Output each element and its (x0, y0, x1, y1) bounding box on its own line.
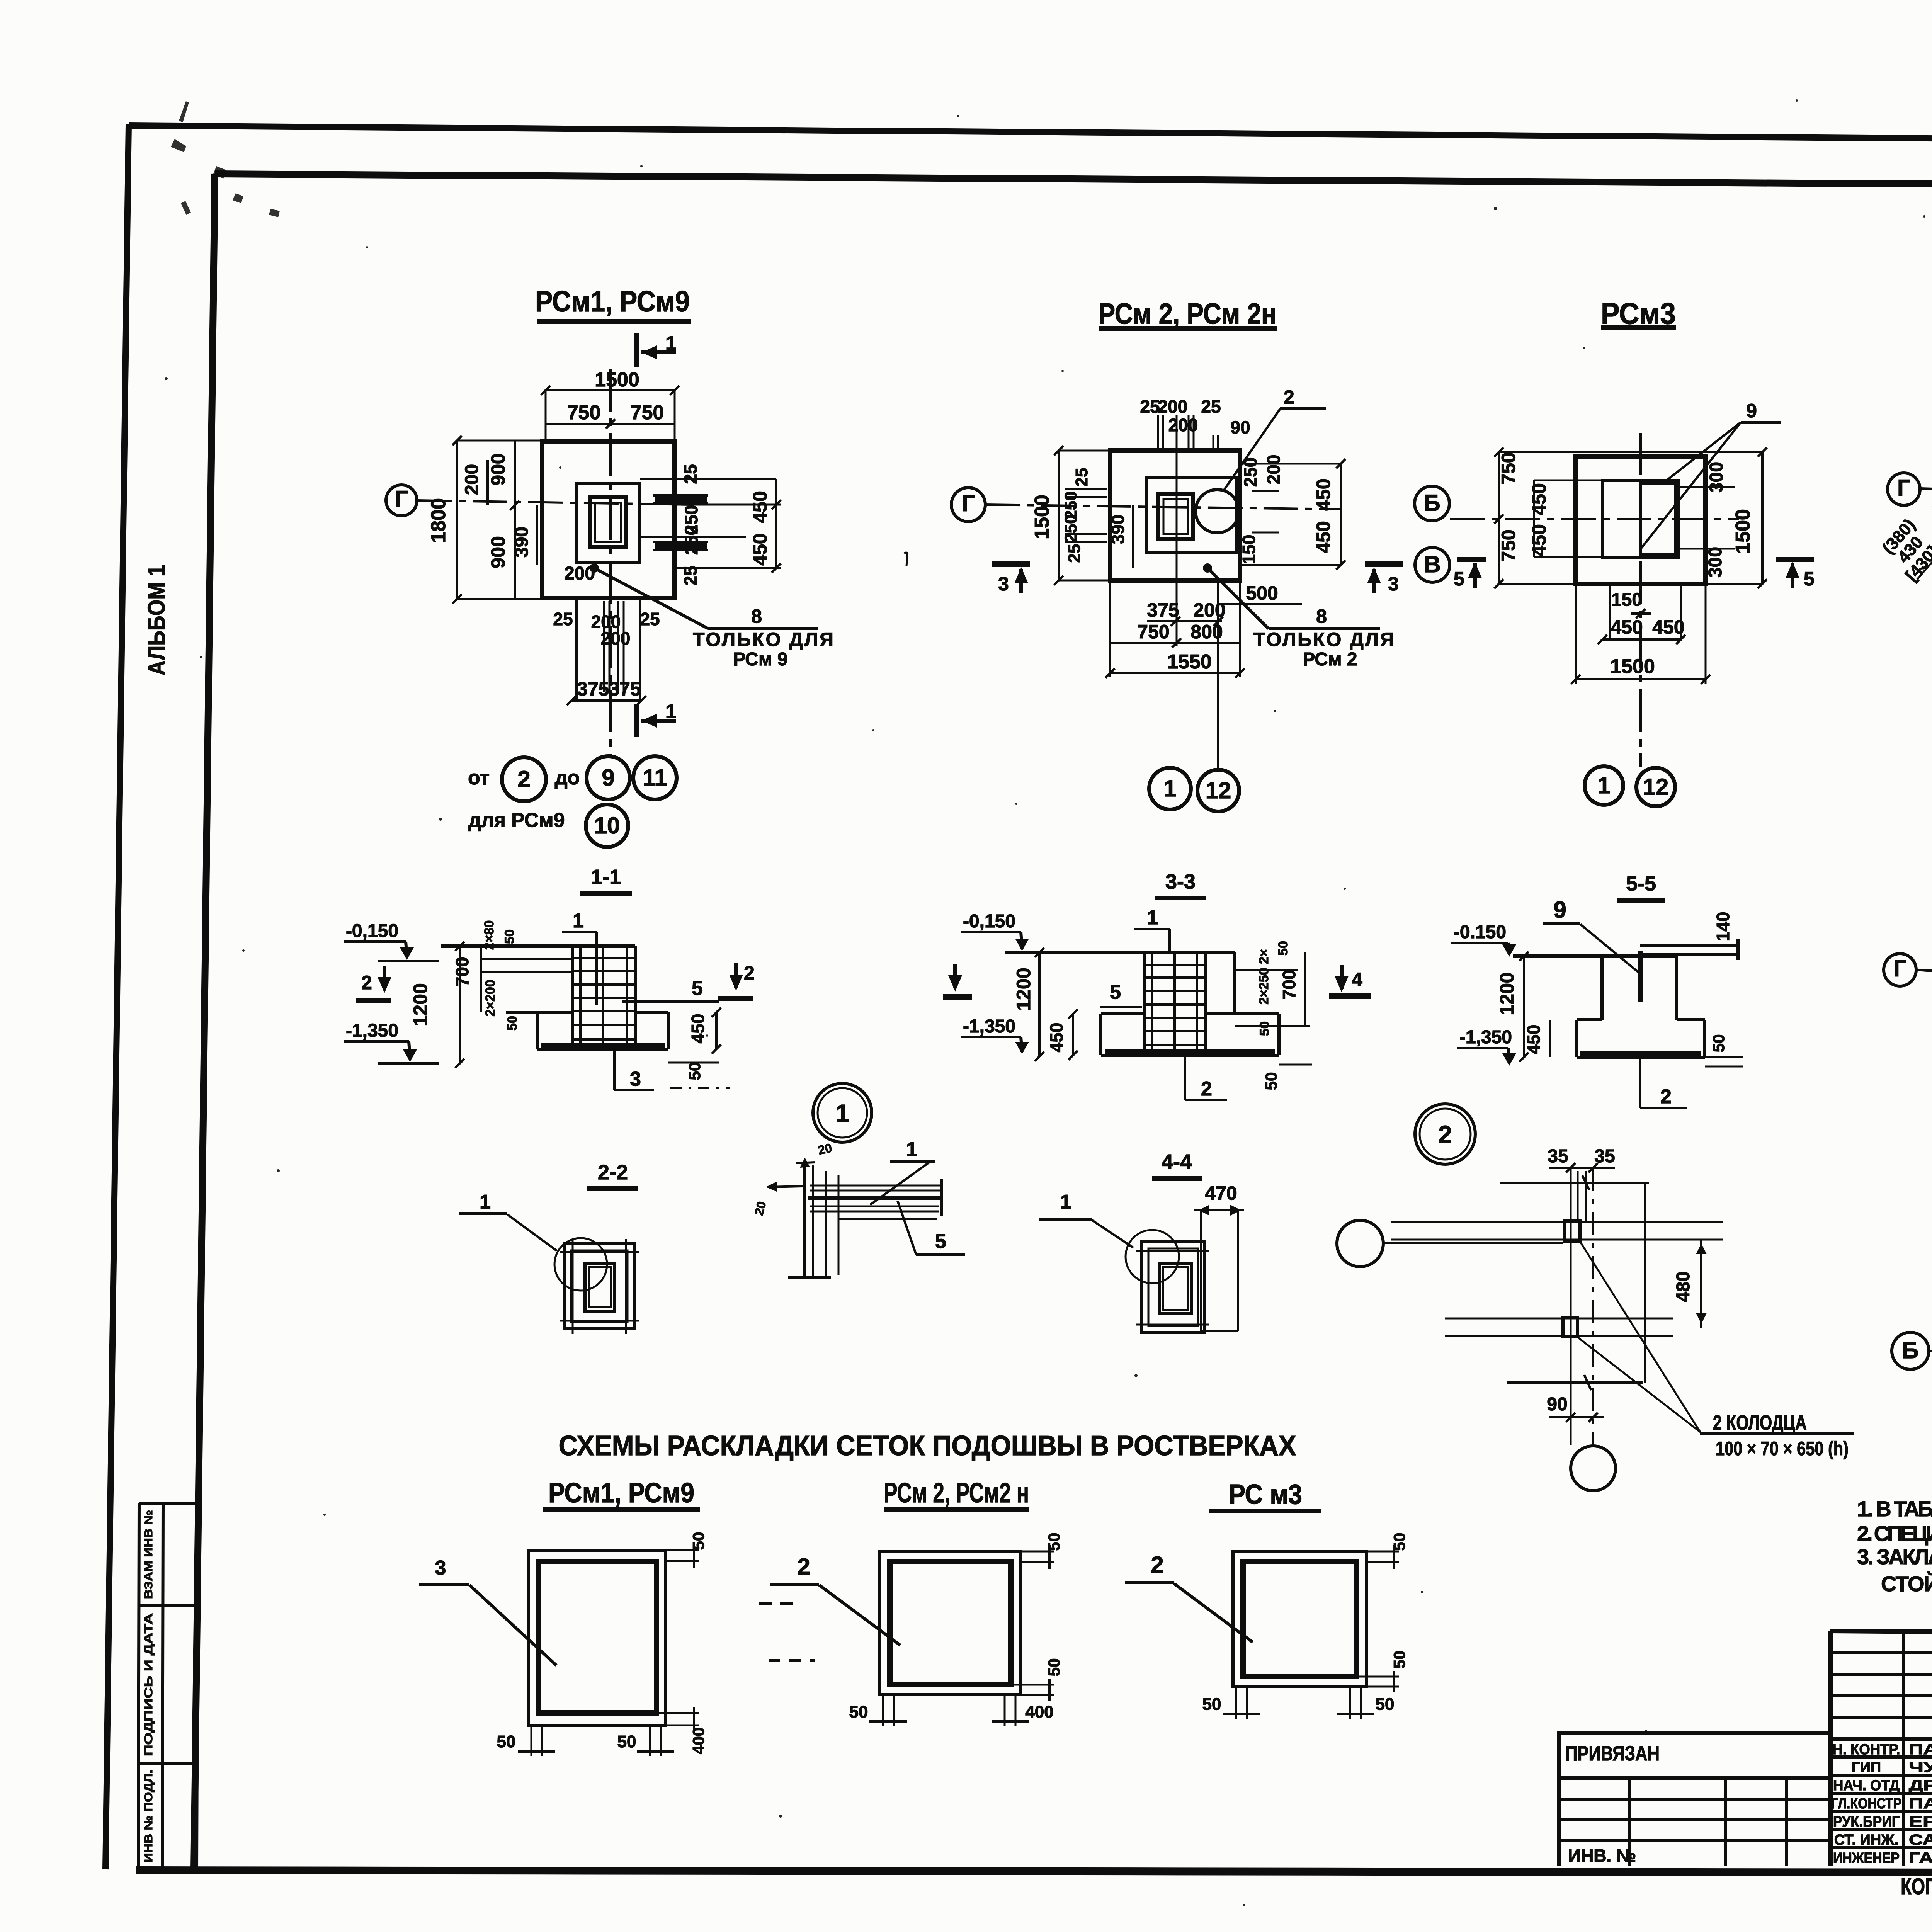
plan 3 title (1601, 296, 1676, 330)
svg-text:1: 1 (1060, 1191, 1071, 1213)
section 1-1 step and footing (537, 1012, 668, 1049)
svg-text:3: 3 (998, 573, 1009, 595)
svg-text:750: 750 (1498, 529, 1519, 561)
mesh scheme 2 square (849, 1533, 1063, 1726)
section 3-3 dim 1200 (1013, 948, 1044, 1061)
svg-text:РСм 9: РСм 9 (733, 649, 787, 670)
svg-text:25: 25 (640, 609, 660, 629)
plan 3 section mark 5 right (1776, 560, 1815, 590)
plan 2 embedded plate bars left (1065, 489, 1107, 542)
svg-text:2: 2 (744, 962, 755, 984)
svg-text:АЛЬБОМ 1: АЛЬБОМ 1 (143, 565, 170, 675)
svg-text:1500: 1500 (1732, 509, 1754, 554)
svg-text:ПРИВЯЗАН: ПРИВЯЗАН (1565, 1742, 1660, 1765)
svg-text:РСм1, РСм9: РСм1, РСм9 (535, 285, 690, 318)
svg-text:480: 480 (1673, 1271, 1694, 1302)
plan 1 centerline vertical (609, 369, 612, 757)
svg-text:25: 25 (1201, 396, 1221, 417)
section 1-1 top line (441, 944, 635, 948)
svg-text:2: 2 (797, 1554, 810, 1580)
svg-text:390: 390 (1108, 515, 1128, 544)
svg-text:25: 25 (1072, 468, 1091, 487)
svg-text:Б: Б (1902, 1337, 1918, 1363)
svg-text:2-2: 2-2 (598, 1161, 628, 1184)
svg-text:375: 375 (577, 678, 609, 700)
ПРИВЯЗАН table (1559, 1733, 1830, 1866)
section 1-1 mesh thick line (541, 1043, 665, 1049)
node circle 1 (813, 1083, 872, 1142)
section 5-5 mesh thick line (1580, 1051, 1701, 1057)
svg-text:900: 900 (487, 536, 509, 568)
svg-text:150: 150 (1239, 535, 1259, 565)
plan 1 column section (590, 497, 626, 547)
svg-text:Г: Г (1897, 475, 1910, 501)
svg-text:САЛТЫКОВА: САЛТЫКОВА (1909, 1832, 1932, 1848)
detail 2-2 mesh square (560, 1239, 639, 1334)
plan 1 dim 390 (512, 505, 537, 565)
svg-text:ДРОХАНОВ: ДРОХАНОВ (1909, 1777, 1932, 1794)
svg-text:470: 470 (1205, 1182, 1237, 1204)
svg-text:1500: 1500 (595, 369, 639, 391)
svg-text:450: 450 (1313, 478, 1334, 510)
svg-text:200: 200 (601, 628, 631, 648)
svg-text:1: 1 (573, 910, 584, 932)
section 5-5 level -0,150 (1451, 922, 1516, 957)
plan 3 section mark 5 left (1454, 560, 1486, 590)
svg-text:2×200: 2×200 (483, 980, 498, 1017)
svg-text:250: 250 (1240, 457, 1260, 487)
plan 3 plate outline (1576, 456, 1706, 584)
svg-text:3: 3 (630, 1068, 641, 1090)
svg-text:8: 8 (1316, 605, 1327, 627)
svg-text:750: 750 (1498, 452, 1519, 484)
svg-text:390: 390 (512, 527, 532, 558)
section 5-5 level -1,350 (1457, 1027, 1516, 1066)
section 5-5 label 2 leader (1640, 1059, 1687, 1108)
node 2 left circle with leader (1337, 1220, 1563, 1267)
plan 2 column section (1158, 494, 1193, 539)
svg-text:50: 50 (1390, 1533, 1408, 1551)
section 1-1 mark 2 left (356, 966, 391, 1001)
section 3-3 mark 4 right (1329, 965, 1371, 996)
svg-text:450: 450 (688, 1014, 708, 1044)
svg-text:1. В ТАБЛИЦАХ ДАНЫ НОРМАТИВН: 1. В ТАБЛИЦАХ ДАНЫ НОРМАТИВНЫЕ НАГРУЗКИ. (1857, 1497, 1932, 1521)
svg-text:-0,150: -0,150 (963, 911, 1015, 932)
svg-text:КОПИРОВАЛ: КОПИРОВАЛ (1901, 1874, 1932, 1899)
section 1-1 label 5 leader (622, 977, 719, 1002)
svg-text:90: 90 (1230, 417, 1250, 437)
section 1-1 dim 450 50 right (668, 1008, 721, 1080)
svg-text:2: 2 (1438, 1121, 1452, 1148)
plan 2 section mark 3 right (1365, 564, 1403, 595)
plan 2 left dims 1500 / 25 250 250 25 / 390 (1031, 446, 1133, 585)
svg-text:-1,350: -1,350 (1459, 1027, 1512, 1048)
svg-text:50: 50 (1262, 1072, 1280, 1090)
svg-text:700: 700 (452, 957, 472, 987)
section 5-5 stem and footing (1577, 956, 1705, 1057)
svg-text:-1,350: -1,350 (346, 1020, 398, 1041)
svg-text:1200: 1200 (1013, 968, 1034, 1010)
svg-text:50: 50 (689, 1532, 707, 1550)
svg-text:50: 50 (849, 1702, 868, 1721)
svg-text:9: 9 (602, 765, 614, 791)
inner frame top (215, 174, 1932, 188)
detail 2-2 node circle (554, 1238, 607, 1291)
svg-text:ПАВЛЮЧЕНКОВ: ПАВЛЮЧЕНКОВ (1909, 1796, 1932, 1812)
svg-text:ТОЛЬКО ДЛЯ: ТОЛЬКО ДЛЯ (693, 629, 835, 650)
detail 4-4 node circle (1126, 1230, 1179, 1283)
section 5-5 top flange (1640, 912, 1738, 960)
plan 2 embedded circle poz.2 (1196, 490, 1239, 533)
plan 3 left dims 750 750 (1498, 452, 1519, 561)
svg-text:2. СПЕЦИФИКАЦИЮ НА РОСТВЕРКИ: 2. СПЕЦИФИКАЦИЮ НА РОСТВЕРКИ РСм 1 ÷ РСм… (1857, 1521, 1932, 1546)
section 1-1 label 1 leader (562, 910, 597, 1005)
plan 1 title (535, 285, 691, 321)
svg-text:50: 50 (685, 1062, 704, 1080)
node 2 dim 480 (1673, 1240, 1707, 1328)
svg-text:375: 375 (609, 678, 641, 700)
plan 2 section mark 3 left (992, 564, 1030, 595)
svg-text:1: 1 (906, 1138, 917, 1161)
svg-text:1: 1 (665, 332, 676, 354)
plan 1 dim 200 (462, 460, 488, 505)
svg-text:2: 2 (1660, 1085, 1672, 1108)
node 2 leader 2 КОЛОДЦА (1577, 1242, 1854, 1459)
detail 4-4 dim 470 (1194, 1182, 1244, 1331)
plan 1 leader 8 ТОЛЬКО ДЛЯ РСм9 (597, 570, 835, 670)
svg-text:300: 300 (1705, 547, 1726, 578)
plan 3 bottom dims 150 / 450 450 / 1500 (1571, 584, 1710, 684)
section 5-5 dims left (1496, 952, 1550, 1062)
node 2 dim 35 35 (1548, 1146, 1615, 1172)
svg-text:до: до (555, 767, 580, 789)
svg-text:5: 5 (935, 1230, 946, 1253)
svg-text:50: 50 (1045, 1533, 1063, 1551)
svg-text:50: 50 (1376, 1695, 1395, 1714)
node 2 anchor verticals (1571, 1168, 1593, 1447)
axis circle Г (schema 1-2 link) (1884, 954, 1932, 986)
svg-text:СТ. ИНЖ.: СТ. ИНЖ. (1834, 1832, 1898, 1848)
svg-text:РСм1, РСм9: РСм1, РСм9 (548, 1478, 694, 1509)
plan 1 stakan (577, 484, 640, 562)
svg-text:900: 900 (487, 453, 509, 485)
svg-text:12: 12 (1206, 777, 1231, 803)
continuation dashes between mesh schemes (759, 1602, 799, 1605)
section 5-5 top line (1513, 954, 1677, 958)
section 5-5 label 9 leader (1543, 897, 1640, 1002)
node circle 2 (1415, 1104, 1475, 1164)
mesh scheme 2 title (884, 1478, 1029, 1509)
svg-text:2 КОЛОДЦА: 2 КОЛОДЦА (1713, 1411, 1807, 1434)
node 2 bar with well 2 (1445, 1317, 1673, 1337)
svg-text:5: 5 (1804, 568, 1815, 590)
svg-text:4-4: 4-4 (1162, 1150, 1192, 1173)
section 3-3 step and footing (1101, 952, 1279, 1055)
svg-text:9: 9 (1553, 897, 1566, 923)
svg-text:450: 450 (749, 533, 771, 565)
svg-text:400: 400 (689, 1727, 707, 1754)
node 1 dim 20 top (796, 1141, 833, 1168)
svg-text:2: 2 (1201, 1078, 1212, 1100)
inner frame left (194, 174, 215, 1870)
svg-text:СТОЙКЕ ФАХВЕРКА СФ2.: СТОЙКЕ ФАХВЕРКА СФ2. (1881, 1571, 1932, 1596)
svg-text:50: 50 (617, 1732, 636, 1751)
section 3-3 dim 450 left (1046, 1009, 1078, 1060)
svg-text:2×250 2×: 2×250 2× (1257, 949, 1271, 1005)
section 1-1 inner horizontals (481, 959, 572, 1012)
section 1-1 level -1,350 (344, 1020, 439, 1063)
svg-text:3-3: 3-3 (1165, 870, 1196, 893)
plan 3 dim frame (1494, 447, 1767, 588)
mesh scheme 3 title (1209, 1479, 1321, 1511)
plan 1 axis circle Г (386, 485, 692, 516)
svg-text:500: 500 (1246, 582, 1278, 604)
svg-text:750: 750 (567, 401, 601, 424)
svg-text:4: 4 (1352, 969, 1362, 990)
svg-text:ЕРЕМИНА: ЕРЕМИНА (1909, 1814, 1932, 1830)
svg-text:700: 700 (1279, 970, 1299, 1000)
section 1-1 label 3 leader (614, 1051, 654, 1090)
section 1-1 title (580, 866, 632, 893)
plan 2 footing outline (1110, 451, 1240, 580)
section 5-5 dim 50 right (1705, 1034, 1743, 1066)
section 1-1 level -0,150 (344, 921, 439, 961)
svg-text:ГАЛАКТИОНОВА: ГАЛАКТИОНОВА (1909, 1850, 1932, 1866)
svg-text:200: 200 (1158, 396, 1188, 417)
plan 2 leader 8 ТОЛЬКО ДЛЯ РСм2 (1209, 570, 1396, 670)
svg-text:от: от (468, 767, 490, 789)
mesh scheme 2 leader 2 (770, 1554, 900, 1645)
plan 2 leader line to circles (1217, 580, 1219, 770)
svg-text:450: 450 (1528, 524, 1550, 556)
plan 1 bolts below (577, 598, 640, 700)
mesh scheme 3 square (1202, 1533, 1408, 1719)
section 3-3 label 5 leader (1100, 981, 1142, 1007)
outer border left (105, 124, 129, 1869)
section 3-3 level -1,350 (961, 1016, 1029, 1054)
svg-text:3: 3 (435, 1557, 446, 1579)
section 5-5 title (1617, 872, 1665, 900)
svg-text:200: 200 (462, 464, 482, 495)
plan 2 right dims 250 200 450 450 150 (1239, 455, 1345, 570)
plan 1 pile circles row: от 2 до 9 11 (468, 756, 677, 801)
svg-text:3. ЗАКЛАДНУЮ ДЕТАЛЬ ПОЗ. 8: 3. ЗАКЛАДНУЮ ДЕТАЛЬ ПОЗ. 8 ПРИВАРИТЬ К А… (1857, 1544, 1932, 1569)
svg-text:Г: Г (962, 490, 975, 516)
svg-text:2: 2 (1151, 1552, 1163, 1578)
svg-text:Г: Г (1893, 956, 1906, 981)
svg-text:100 × 70 × 650 (h): 100 × 70 × 650 (h) (1716, 1438, 1849, 1459)
plan 1 right dims 25/450/250 (640, 464, 781, 585)
detail 4-4 title (1152, 1150, 1202, 1179)
section 3-3 title (1155, 870, 1206, 898)
frame bottom (136, 1870, 1932, 1873)
plan 3 centerlines (1450, 433, 1739, 767)
name table name texts (1909, 1742, 1932, 1866)
svg-text:ИНЖЕНЕР: ИНЖЕНЕР (1833, 1850, 1900, 1866)
svg-text:200: 200 (564, 563, 595, 584)
mesh scheme 3 leader 2 (1125, 1552, 1253, 1642)
svg-text:-1,350: -1,350 (963, 1016, 1015, 1037)
svg-text:-0.150: -0.150 (1454, 922, 1506, 942)
svg-text:5: 5 (692, 977, 703, 1000)
svg-text:СХЕМЫ РАСКЛАДКИ СЕТОК ПОДОШ: СХЕМЫ РАСКЛАДКИ СЕТОК ПОДОШВЫ В РОСТВЕРК… (559, 1430, 1296, 1461)
svg-text:25: 25 (680, 464, 701, 484)
svg-text:1: 1 (835, 1099, 849, 1127)
svg-text:2: 2 (1284, 386, 1294, 408)
svg-text:450: 450 (1528, 483, 1550, 515)
schema 1 axis circle Г (1888, 473, 1920, 505)
plan 1 dims 25 200 25 / 200 (553, 609, 660, 648)
svg-text:1500: 1500 (1031, 495, 1053, 539)
svg-text:35: 35 (1548, 1146, 1568, 1167)
svg-text:750: 750 (631, 401, 664, 424)
svg-text:1550: 1550 (1167, 651, 1212, 673)
svg-text:5: 5 (1454, 568, 1464, 590)
svg-text:250: 250 (681, 526, 701, 555)
node 1 dim 20 left (752, 1182, 803, 1217)
svg-text:ГИП: ГИП (1852, 1759, 1881, 1776)
svg-text:для РСм9: для РСм9 (468, 809, 565, 832)
node 2 top edge (1500, 1175, 1649, 1383)
svg-text:11: 11 (643, 765, 667, 791)
svg-text:12: 12 (1643, 774, 1669, 800)
plan 1 row для РСм9 10 (468, 804, 628, 847)
bottom-left stamp table (138, 1503, 198, 1869)
section 3-3 right dims (1235, 941, 1312, 1090)
plan 2 weld dot poz.8 (1203, 563, 1212, 573)
section 1-1 dash line right (670, 1087, 730, 1089)
svg-text:50: 50 (502, 929, 517, 944)
svg-text:ЧУБОКСАРОВА: ЧУБОКСАРОВА (1909, 1759, 1932, 1776)
plan 2 stakan (1147, 477, 1236, 553)
svg-text:10: 10 (594, 813, 620, 838)
svg-text:2: 2 (517, 766, 530, 792)
node 1 label 5 leader (898, 1201, 965, 1255)
plan 1 embedded plate bars right (653, 495, 708, 550)
svg-text:Н. КОНТР.: Н. КОНТР. (1833, 1742, 1900, 1758)
svg-text:90: 90 (1547, 1394, 1567, 1415)
plan 1 left dim 1800 (427, 436, 542, 604)
section 3-3 top line (1005, 951, 1235, 954)
svg-text:20: 20 (817, 1141, 833, 1157)
КОПИРОВАЛ (1901, 1874, 1932, 1907)
svg-text:50: 50 (1709, 1034, 1728, 1053)
detail 4-4 label 1 leader (1039, 1191, 1133, 1248)
svg-text:ГЛ.КОНСТР: ГЛ.КОНСТР (1831, 1796, 1901, 1812)
svg-text:50: 50 (1045, 1658, 1063, 1677)
plan 3 stakan extension lines and dim 450 450 (1528, 480, 1602, 557)
node 1 mesh corner bars (788, 1165, 943, 1278)
node 2 bottom edge (1507, 1375, 1643, 1390)
node 2 bar with well 1 (1391, 1221, 1723, 1242)
name table role texts (1831, 1742, 1901, 1866)
svg-text:1200: 1200 (1496, 972, 1518, 1015)
svg-text:450: 450 (1652, 616, 1684, 638)
svg-text:400: 400 (1025, 1702, 1053, 1721)
schema 2 axis line (1916, 970, 1932, 978)
detail 4-4 mesh square (1136, 1242, 1209, 1333)
svg-text:ВЗАМ ИНВ №: ВЗАМ ИНВ № (142, 1510, 155, 1599)
svg-text:8: 8 (751, 605, 762, 627)
outer border top (129, 126, 1932, 143)
svg-text:РСм 2, РСм 2н: РСм 2, РСм 2н (1099, 298, 1277, 330)
svg-text:375: 375 (1147, 599, 1179, 621)
svg-text:Г: Г (395, 486, 408, 512)
mesh scheme 1 title (543, 1478, 700, 1509)
section 3-3 level -0,150 (961, 911, 1029, 951)
svg-text:5-5: 5-5 (1626, 872, 1656, 895)
svg-text:25: 25 (1140, 396, 1160, 417)
svg-text:1: 1 (1163, 776, 1176, 801)
svg-text:ИНВ. №: ИНВ. № (1568, 1845, 1636, 1866)
section 3-3 mesh thick line (1105, 1049, 1275, 1055)
svg-text:50: 50 (1390, 1651, 1408, 1669)
svg-text:2: 2 (361, 972, 372, 993)
svg-text:250: 250 (1061, 514, 1080, 543)
svg-text:РС м3: РС м3 (1229, 1479, 1302, 1510)
plan 2 axis circle Г (951, 488, 1341, 522)
name table grid (1830, 1631, 1932, 1866)
svg-text:1800: 1800 (427, 498, 450, 543)
plan 1 section mark 1 (top) (637, 332, 676, 367)
svg-text:1: 1 (1147, 906, 1158, 929)
svg-text:1: 1 (665, 701, 676, 722)
svg-text:140: 140 (1713, 912, 1733, 942)
schema 3 axis circle Б (1892, 1332, 1932, 1369)
svg-text:В: В (1424, 551, 1440, 577)
svg-text:750: 750 (1137, 621, 1169, 643)
svg-text:450: 450 (1046, 1023, 1066, 1053)
svg-text:50: 50 (497, 1732, 516, 1751)
svg-text:5: 5 (1110, 981, 1121, 1003)
svg-text:ТОЛЬКО ДЛЯ: ТОЛЬКО ДЛЯ (1253, 629, 1396, 650)
mesh scheme 1 square (497, 1532, 707, 1756)
section 1-1 dim 1200 (410, 942, 464, 1068)
svg-text:РСм 2, РСм2 н: РСм 2, РСм2 н (884, 1478, 1029, 1509)
section 1-1 mark 2 right (718, 962, 755, 998)
plan 1 dim 375 375 (567, 678, 646, 705)
svg-text:150: 150 (1611, 590, 1642, 610)
axis circle Б (1415, 486, 1449, 521)
dirt marks top-left corner (171, 101, 280, 217)
plan 2 pile circles 1 12 (1149, 768, 1239, 811)
section 3-3 label 2 leader (1185, 1057, 1227, 1100)
plan 2 dims below 500/375 200/750 800/1550 (1105, 415, 1302, 678)
node 2 dim 90 (1547, 1394, 1604, 1422)
axis circle В (1415, 548, 1450, 582)
svg-text:300: 300 (1706, 462, 1727, 493)
plan 3 leader 9 (1641, 400, 1781, 548)
section 3-3 rebar cage (1144, 952, 1205, 1055)
svg-text:НАЧ. ОТД: НАЧ. ОТД (1833, 1777, 1900, 1794)
plan 2 top bolt dims 25 200 25 / 200 / 90 (1140, 396, 1250, 451)
node 1 label 1 leader (870, 1138, 935, 1205)
svg-text:РСм3: РСм3 (1601, 296, 1676, 330)
svg-text:1-1: 1-1 (591, 866, 621, 889)
svg-text:ПАВЛЮЧЕНКОВ: ПАВЛЮЧЕНКОВ (1909, 1742, 1932, 1758)
pencil mark right of plan 1 (904, 553, 907, 566)
detail 2-2 label 1 leader (459, 1191, 557, 1251)
plan 1 dim 900/900 (487, 440, 519, 599)
plan 3 right dims 300 300 1500 (1679, 462, 1754, 578)
svg-text:25: 25 (1065, 544, 1084, 563)
svg-text:200: 200 (1264, 455, 1284, 485)
schema 1 dims (1879, 451, 1932, 607)
svg-text:1200: 1200 (410, 983, 431, 1026)
svg-text:ИНВ № ПОДЛ.: ИНВ № ПОДЛ. (142, 1770, 155, 1862)
detail 2-2 title (587, 1161, 638, 1189)
svg-text:1500: 1500 (1610, 655, 1655, 678)
